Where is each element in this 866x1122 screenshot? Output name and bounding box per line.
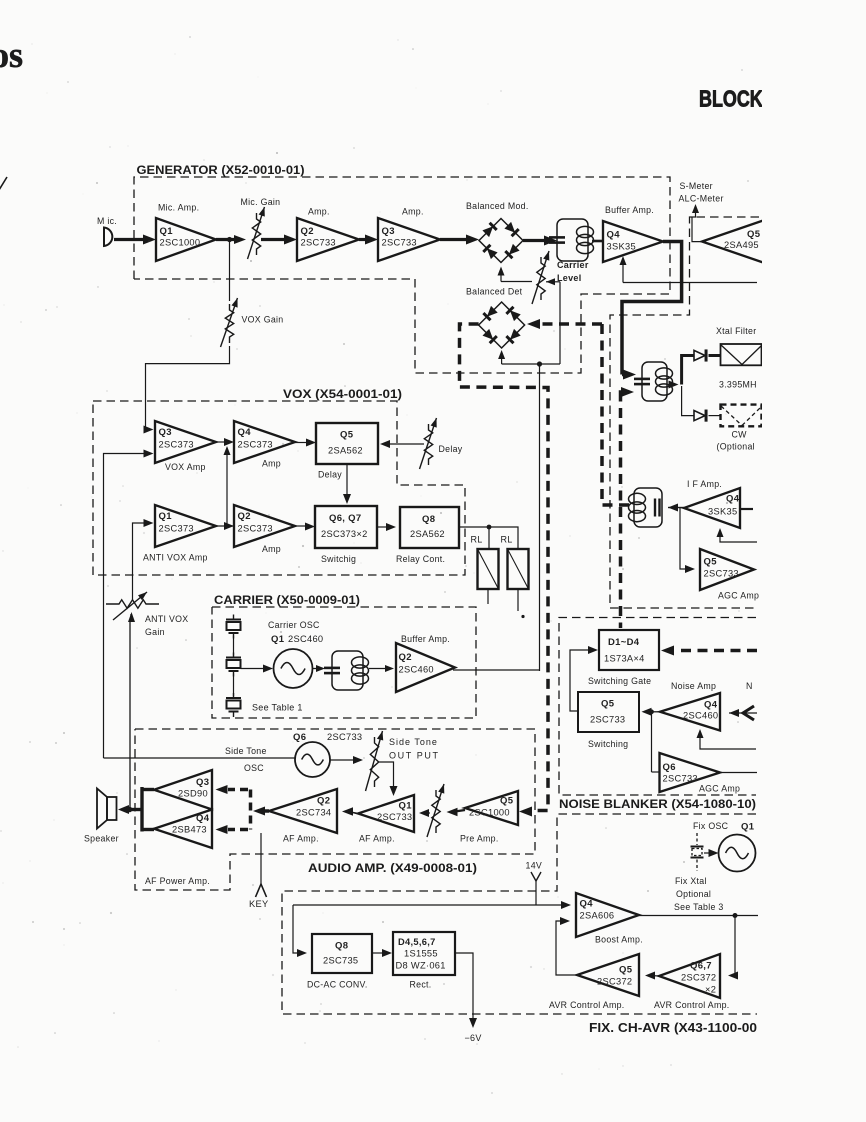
wire Q4 to Q5 delay xyxy=(295,442,308,444)
svg-text:1S1555: 1S1555 xyxy=(404,949,438,959)
wire Q5 to Q6Q7 xyxy=(346,464,348,498)
svg-text:2SC372: 2SC372 xyxy=(597,977,632,987)
svg-text:Boost Amp.: Boost Amp. xyxy=(595,935,643,945)
svg-text:Side Tone: Side Tone xyxy=(225,746,267,756)
svg-text:Switching: Switching xyxy=(588,739,628,749)
svg-text:CW: CW xyxy=(732,430,748,440)
svg-text:Q5: Q5 xyxy=(704,557,718,568)
wire AVR feedback to boost xyxy=(556,921,577,975)
wire VOX gain feed from mic amp xyxy=(229,240,231,302)
svg-text:1S73A×4: 1S73A×4 xyxy=(604,654,645,664)
unit box NOISE BLANKER (X54-1080-10) xyxy=(559,618,756,796)
wire Q2 to Q6Q7 xyxy=(295,525,308,527)
node carrier junction xyxy=(537,361,542,366)
wire crystal bus xyxy=(233,636,235,656)
unit box GENERATOR (X52-0010-01) xyxy=(134,177,670,373)
wire Q1 output junction xyxy=(216,238,237,241)
carrier level pot wire from balanced mod bottom xyxy=(500,273,502,282)
svg-text:I F Amp.: I F Amp. xyxy=(687,479,722,489)
svg-text:Mic. Gain: Mic. Gain xyxy=(241,197,281,207)
svg-text:2SC1000: 2SC1000 xyxy=(160,238,201,248)
unit box FIX. CH-AVR (X43-1100-00) xyxy=(282,814,757,1014)
svg-text:Q1: Q1 xyxy=(160,226,174,237)
svg-text:AVR Control Amp.: AVR Control Amp. xyxy=(549,1000,625,1010)
svg-text:BLOCK: BLOCK xyxy=(699,86,762,112)
wire Q1 to Q2 xyxy=(350,812,358,814)
amp Q4 2SC373 Amp xyxy=(234,421,295,463)
svg-text:AUDIO AMP. (X49-0008-01): AUDIO AMP. (X49-0008-01) xyxy=(308,861,477,875)
svg-text:Amp: Amp xyxy=(262,459,281,469)
svg-text:2SC734: 2SC734 xyxy=(296,808,331,818)
svg-text:N: N xyxy=(746,681,753,691)
block Q5 2SC733 Switching xyxy=(578,692,639,732)
svg-text:2SC733: 2SC733 xyxy=(377,812,412,822)
svg-text:2SC373: 2SC373 xyxy=(238,440,273,450)
node small dot xyxy=(521,615,524,618)
svg-text:14V: 14V xyxy=(526,861,543,871)
wire Q8 to rectifier xyxy=(372,952,385,954)
RX path heavy dashed det out to AF xyxy=(460,324,549,811)
wire 14V down to boost line xyxy=(535,881,537,905)
svg-text:2SC733: 2SC733 xyxy=(382,238,417,248)
wire carrier level to vertical xyxy=(546,278,555,285)
potentiometer Carrier Level xyxy=(537,257,545,300)
wire to meters xyxy=(692,206,702,242)
svg-text:Switchig: Switchig xyxy=(321,554,356,564)
svg-text:D4,5,6,7: D4,5,6,7 xyxy=(398,937,436,947)
svg-text:Q2: Q2 xyxy=(301,226,314,237)
svg-text:D1~D4: D1~D4 xyxy=(608,637,640,648)
wire carrier injection up into det xyxy=(501,354,503,364)
svg-text:Rect.: Rect. xyxy=(410,980,432,990)
svg-text:Q2: Q2 xyxy=(238,511,251,522)
unit box AUDIO AMP (X49-0008-01) xyxy=(135,729,535,890)
svg-text:ALC-Meter: ALC-Meter xyxy=(679,194,724,204)
svg-text:Speaker: Speaker xyxy=(84,834,119,844)
svg-text:Buffer Amp.: Buffer Amp. xyxy=(605,205,654,215)
svg-text:KEY: KEY xyxy=(249,899,269,909)
crystal X1 xyxy=(233,615,235,620)
transformer T4 carrier xyxy=(332,651,363,690)
wire Mic.Gain to Q2 xyxy=(261,238,285,241)
svg-text:3.395MH: 3.395MH xyxy=(719,380,757,390)
RX path heavy dashed to switching gate xyxy=(621,387,634,397)
svg-text:2SA495: 2SA495 xyxy=(724,240,759,250)
svg-text:Relay Cont.: Relay Cont. xyxy=(396,554,445,564)
wire anti-vox input xyxy=(133,523,147,600)
scan mark left edge xyxy=(0,177,7,190)
block Q8 2SC735 DC-AC CONV. xyxy=(312,934,372,973)
amp Q3 2SC373 VOX Amp xyxy=(155,421,216,463)
svg-text:OUT PUT: OUT PUT xyxy=(389,751,440,761)
svg-text:×2: ×2 xyxy=(705,985,716,995)
svg-text:S-Meter: S-Meter xyxy=(680,181,713,191)
wire sidetone to vox xyxy=(104,757,296,759)
heavy dashed into gate right xyxy=(675,649,757,653)
svg-text:Amp: Amp xyxy=(262,544,281,554)
unit box IF (cut right) xyxy=(610,217,759,608)
svg-text:Buffer Amp.: Buffer Amp. xyxy=(401,634,450,644)
svg-text:Optional: Optional xyxy=(676,889,711,899)
svg-text:Gain: Gain xyxy=(145,627,165,637)
svg-text:2SC460: 2SC460 xyxy=(683,711,718,721)
svg-text:GENERATOR (X52-0010-01): GENERATOR (X52-0010-01) xyxy=(137,163,305,177)
svg-text:FIX. CH-AVR (X43-1100-00: FIX. CH-AVR (X43-1100-00 xyxy=(589,1021,757,1035)
svg-text:Mic. Amp.: Mic. Amp. xyxy=(158,203,199,213)
svg-text:2SC460: 2SC460 xyxy=(399,665,434,675)
svg-text:Q6: Q6 xyxy=(663,762,676,773)
svg-text:Fix OSC: Fix OSC xyxy=(693,821,729,831)
amp Q2 2SC373 Amp xyxy=(234,505,295,547)
svg-text:Q2: Q2 xyxy=(317,796,330,807)
wire pot to Q1 xyxy=(424,812,430,814)
svg-text:Delay: Delay xyxy=(318,470,342,480)
svg-text:2SC733: 2SC733 xyxy=(327,732,362,742)
svg-text:Q1: Q1 xyxy=(741,822,755,833)
crystal Fix Xtal (optional, dashed) xyxy=(696,833,698,845)
potentiometer VOX Gain xyxy=(225,304,233,343)
svg-text:Carrier: Carrier xyxy=(557,260,589,270)
unit box CARRIER (X50-0009-01) xyxy=(212,607,476,718)
svg-text:Side Tone: Side Tone xyxy=(389,737,438,747)
wire Q8 to relays xyxy=(459,527,518,549)
wire AGC into IF amp bottom xyxy=(720,532,757,542)
wire crystals to osc xyxy=(241,668,267,670)
svg-text:2SC733: 2SC733 xyxy=(663,774,698,784)
amp Q3 2SD90 (AF power) xyxy=(154,770,212,810)
block D1~D4 1S73A&#215;4 Switching Gate xyxy=(599,630,659,670)
svg-text:Q4: Q4 xyxy=(238,427,252,438)
speaker xyxy=(97,789,107,829)
wire boost feed xyxy=(293,904,564,906)
svg-text:Q5: Q5 xyxy=(619,965,633,976)
svg-text:Q6, Q7: Q6, Q7 xyxy=(329,513,361,524)
svg-text:(Optional: (Optional xyxy=(717,442,755,452)
svg-text:Q4: Q4 xyxy=(196,813,210,824)
svg-text:CARRIER (X50-0009-01): CARRIER (X50-0009-01) xyxy=(214,593,360,607)
svg-text:Q4: Q4 xyxy=(704,700,718,711)
amp Q1 2SC733 AF Amp. xyxy=(358,795,414,832)
svg-text:Q5: Q5 xyxy=(500,796,514,807)
wire Q2 to Q3 xyxy=(359,238,366,241)
wire Q6,7 to Q5 xyxy=(650,975,659,978)
block Q8 2SA562 Relay Cont. xyxy=(400,507,459,548)
wire delay pot to Q5 xyxy=(390,443,424,445)
svg-text:AVR Control Amp.: AVR Control Amp. xyxy=(654,1000,730,1010)
RX path heavy dashed into balanced det xyxy=(540,322,602,326)
svg-text:Xtal Filter: Xtal Filter xyxy=(716,326,756,336)
svg-text:Level: Level xyxy=(557,273,582,283)
svg-text:2SC733: 2SC733 xyxy=(590,715,625,725)
svg-text:RL: RL xyxy=(471,535,483,545)
diode to xtal filter xyxy=(694,350,705,360)
unit box VOX (X54-0001-01) xyxy=(93,401,465,575)
svg-text:VOX Gain: VOX Gain xyxy=(242,315,284,325)
node junction after Q1 xyxy=(227,237,232,242)
wire ALC into Q4 bottom xyxy=(622,262,624,283)
svg-text:Q4: Q4 xyxy=(580,899,594,910)
filter CW (optional), dashed xyxy=(721,405,762,427)
potentiometer Side Tone OUT PUT xyxy=(370,737,378,787)
svg-text:Q6: Q6 xyxy=(293,732,306,743)
svg-text:2SD90: 2SD90 xyxy=(178,789,208,799)
potentiometer AF gain xyxy=(432,790,440,833)
wire preamp to pot xyxy=(455,810,465,812)
svg-text:2SC733: 2SC733 xyxy=(301,238,336,248)
amp Q5 2SC1000 Pre Amp. xyxy=(465,791,518,825)
wire transformer to Q4 xyxy=(592,240,603,243)
svg-text:Q6,7: Q6,7 xyxy=(690,961,712,972)
svg-text:Amp.: Amp. xyxy=(402,207,424,217)
svg-text:2SC373: 2SC373 xyxy=(238,524,273,534)
svg-text:2SA562: 2SA562 xyxy=(410,529,445,539)
block Q5 2SA562 Delay xyxy=(316,423,378,464)
svg-text:2SA606: 2SA606 xyxy=(580,911,615,921)
AF heavy dashed Q2 out to power amps xyxy=(262,809,269,813)
svg-text:AF Amp.: AF Amp. xyxy=(359,834,395,844)
svg-text:Q2: Q2 xyxy=(399,652,412,663)
svg-text:Fix Xtal: Fix Xtal xyxy=(675,876,707,886)
svg-text:Q8: Q8 xyxy=(335,941,348,952)
svg-text:Q3: Q3 xyxy=(382,226,395,237)
wire balanced mod to transformer xyxy=(523,239,545,242)
svg-text:Q1: Q1 xyxy=(159,511,173,522)
svg-text:2SB473: 2SB473 xyxy=(172,825,207,835)
svg-text:Q8: Q8 xyxy=(422,514,435,525)
svg-text:NOISE BLANKER (X54-1080-10): NOISE BLANKER (X54-1080-10) xyxy=(559,797,756,811)
wire Q6Q7 to Q8 xyxy=(377,526,389,528)
svg-text:2SC372: 2SC372 xyxy=(681,973,716,983)
wire Q3 to Q4 xyxy=(216,441,227,443)
wire sidetone pot to AF amp Q1 xyxy=(379,762,394,790)
svg-text:Amp.: Amp. xyxy=(308,207,330,217)
wire boost out xyxy=(639,915,758,917)
svg-text:Switching Gate: Switching Gate xyxy=(588,676,651,686)
wire IF out down to AGC amp xyxy=(680,508,686,569)
crystal X3 xyxy=(233,693,235,698)
svg-text:DC-AC CONV.: DC-AC CONV. xyxy=(307,980,368,990)
svg-text:Balanced Det: Balanced Det xyxy=(466,287,523,297)
wire to AGC amp Q6 xyxy=(651,712,653,772)
wire carrier from buffer Q2 xyxy=(539,364,541,671)
wire osc to transformer xyxy=(313,668,319,670)
svg-text:Pre Amp.: Pre Amp. xyxy=(460,834,499,844)
svg-text:Carrier OSC: Carrier OSC xyxy=(268,620,320,630)
wire anti vox pickup from speaker line xyxy=(129,621,131,807)
svg-text:3SK35: 3SK35 xyxy=(607,242,636,252)
wire -6V output xyxy=(455,953,473,1022)
svg-text:Q3: Q3 xyxy=(196,777,209,788)
transformer T1 (generator) xyxy=(557,219,588,261)
amp Q5 2SC372 AVR Control Amp. xyxy=(577,954,639,996)
svg-text:Q5: Q5 xyxy=(601,699,615,710)
svg-text:AF Amp.: AF Amp. xyxy=(283,834,319,844)
svg-text:Q1: Q1 xyxy=(399,801,413,812)
potentiometer ANTI VOX Gain xyxy=(106,600,159,608)
diode to CW filter xyxy=(694,411,705,421)
block D4,5,6,7 1S1555 D8 WZ-061 Rect. xyxy=(393,932,455,975)
svg-text:Balanced Mod.: Balanced Mod. xyxy=(466,201,529,211)
wire AGC feedback into noise amp xyxy=(700,735,756,749)
svg-text:AF Power Amp.: AF Power Amp. xyxy=(145,876,210,886)
amp Q6 2SC733 AGC Amp xyxy=(660,753,721,792)
amp Q4 2SB473 (AF power) xyxy=(154,810,212,849)
TX thick path buffer out to IF transformer xyxy=(622,242,682,375)
block Q6,Q7 2SC373x2 Switchig xyxy=(315,506,377,548)
svg-text:Delay: Delay xyxy=(439,444,463,454)
svg-text:Q1: Q1 xyxy=(271,634,285,645)
svg-text:2SA562: 2SA562 xyxy=(328,446,363,456)
transformer T2 IF xyxy=(642,362,667,401)
wire mic to Q1 xyxy=(114,238,144,241)
wire noise amp input from right xyxy=(729,712,757,714)
svg-text:M ic.: M ic. xyxy=(97,216,117,226)
wire T2 out junction xyxy=(670,383,675,385)
wire noise amp out to switching xyxy=(650,711,660,713)
svg-text:2SC460: 2SC460 xyxy=(288,634,323,644)
wire Q3 to balanced modulator xyxy=(440,238,467,241)
svg-text:ANTI VOX Amp: ANTI VOX Amp xyxy=(143,553,208,563)
svg-text:ANTI VOX: ANTI VOX xyxy=(145,614,188,624)
svg-text:3SK35: 3SK35 xyxy=(708,507,737,517)
scan speckles (decorative noise) xyxy=(245,182,247,184)
wire transformer to buffer xyxy=(369,668,387,670)
amp Q2 2SC734 AF Amp. xyxy=(269,789,337,833)
wire carrier bus xyxy=(502,363,560,365)
amp Q6,7 2SC372 x2 AVR Control Amp. xyxy=(659,954,720,998)
svg-text:2SC373: 2SC373 xyxy=(159,524,194,534)
op-amp 2SA495 (cut) xyxy=(702,220,766,264)
svg-text:D8 WZ·061: D8 WZ·061 xyxy=(396,961,446,971)
wire xtal to fix osc xyxy=(704,852,712,854)
wire osc to sidetone pot xyxy=(330,759,356,761)
svg-text:Q3: Q3 xyxy=(159,427,172,438)
svg-text:Q4: Q4 xyxy=(607,230,621,241)
svg-text:AGC Amp: AGC Amp xyxy=(699,784,740,794)
svg-text:VOX (X54-0001-01): VOX (X54-0001-01) xyxy=(283,387,402,401)
transformer T3 IF amp input xyxy=(634,488,662,527)
wire to CW filter xyxy=(682,386,694,416)
svg-text:2SC735: 2SC735 xyxy=(323,956,358,966)
svg-text:AGC Amp: AGC Amp xyxy=(718,591,759,601)
svg-text:os: os xyxy=(0,35,23,75)
svg-text:Q5: Q5 xyxy=(747,229,761,240)
crystal X2 xyxy=(233,653,235,658)
svg-text:Q5: Q5 xyxy=(340,430,354,441)
svg-text:−6V: −6V xyxy=(465,1033,482,1043)
amp Q4 2SA606 Boost Amp. xyxy=(576,893,639,937)
svg-text:2SC733: 2SC733 xyxy=(704,569,739,579)
amp Q5 2SC733 AGC Amp xyxy=(700,549,754,590)
RX path heavy dashed vertical to IF transformer xyxy=(602,324,630,505)
wire switching to gate xyxy=(570,650,588,711)
svg-text:OSC: OSC xyxy=(244,763,264,773)
wire to AVR control xyxy=(733,916,735,976)
wire buffer output to carrier bus xyxy=(453,669,540,671)
svg-text:2SC373: 2SC373 xyxy=(159,440,194,450)
svg-text:RL: RL xyxy=(501,535,513,545)
wire AGC line rightwards xyxy=(623,282,757,284)
wire KEY xyxy=(260,833,262,884)
svg-text:Noise Amp: Noise Amp xyxy=(671,681,716,691)
wire power amp bus to speaker xyxy=(140,787,143,832)
svg-text:2SC1000: 2SC1000 xyxy=(469,808,510,818)
wire sidetone into Q3 xyxy=(104,454,146,759)
svg-text:See Table 1: See Table 1 xyxy=(252,703,303,713)
svg-text:2SC373×2: 2SC373×2 xyxy=(321,529,368,539)
svg-text:See Table 3: See Table 3 xyxy=(674,902,724,912)
svg-text:VOX Amp: VOX Amp xyxy=(165,462,206,472)
wire Q1 to Q2 + up to Q4 input xyxy=(216,525,234,527)
potentiometer Delay xyxy=(424,424,432,465)
amp Q1 2SC373 ANTI VOX Amp xyxy=(155,505,216,547)
